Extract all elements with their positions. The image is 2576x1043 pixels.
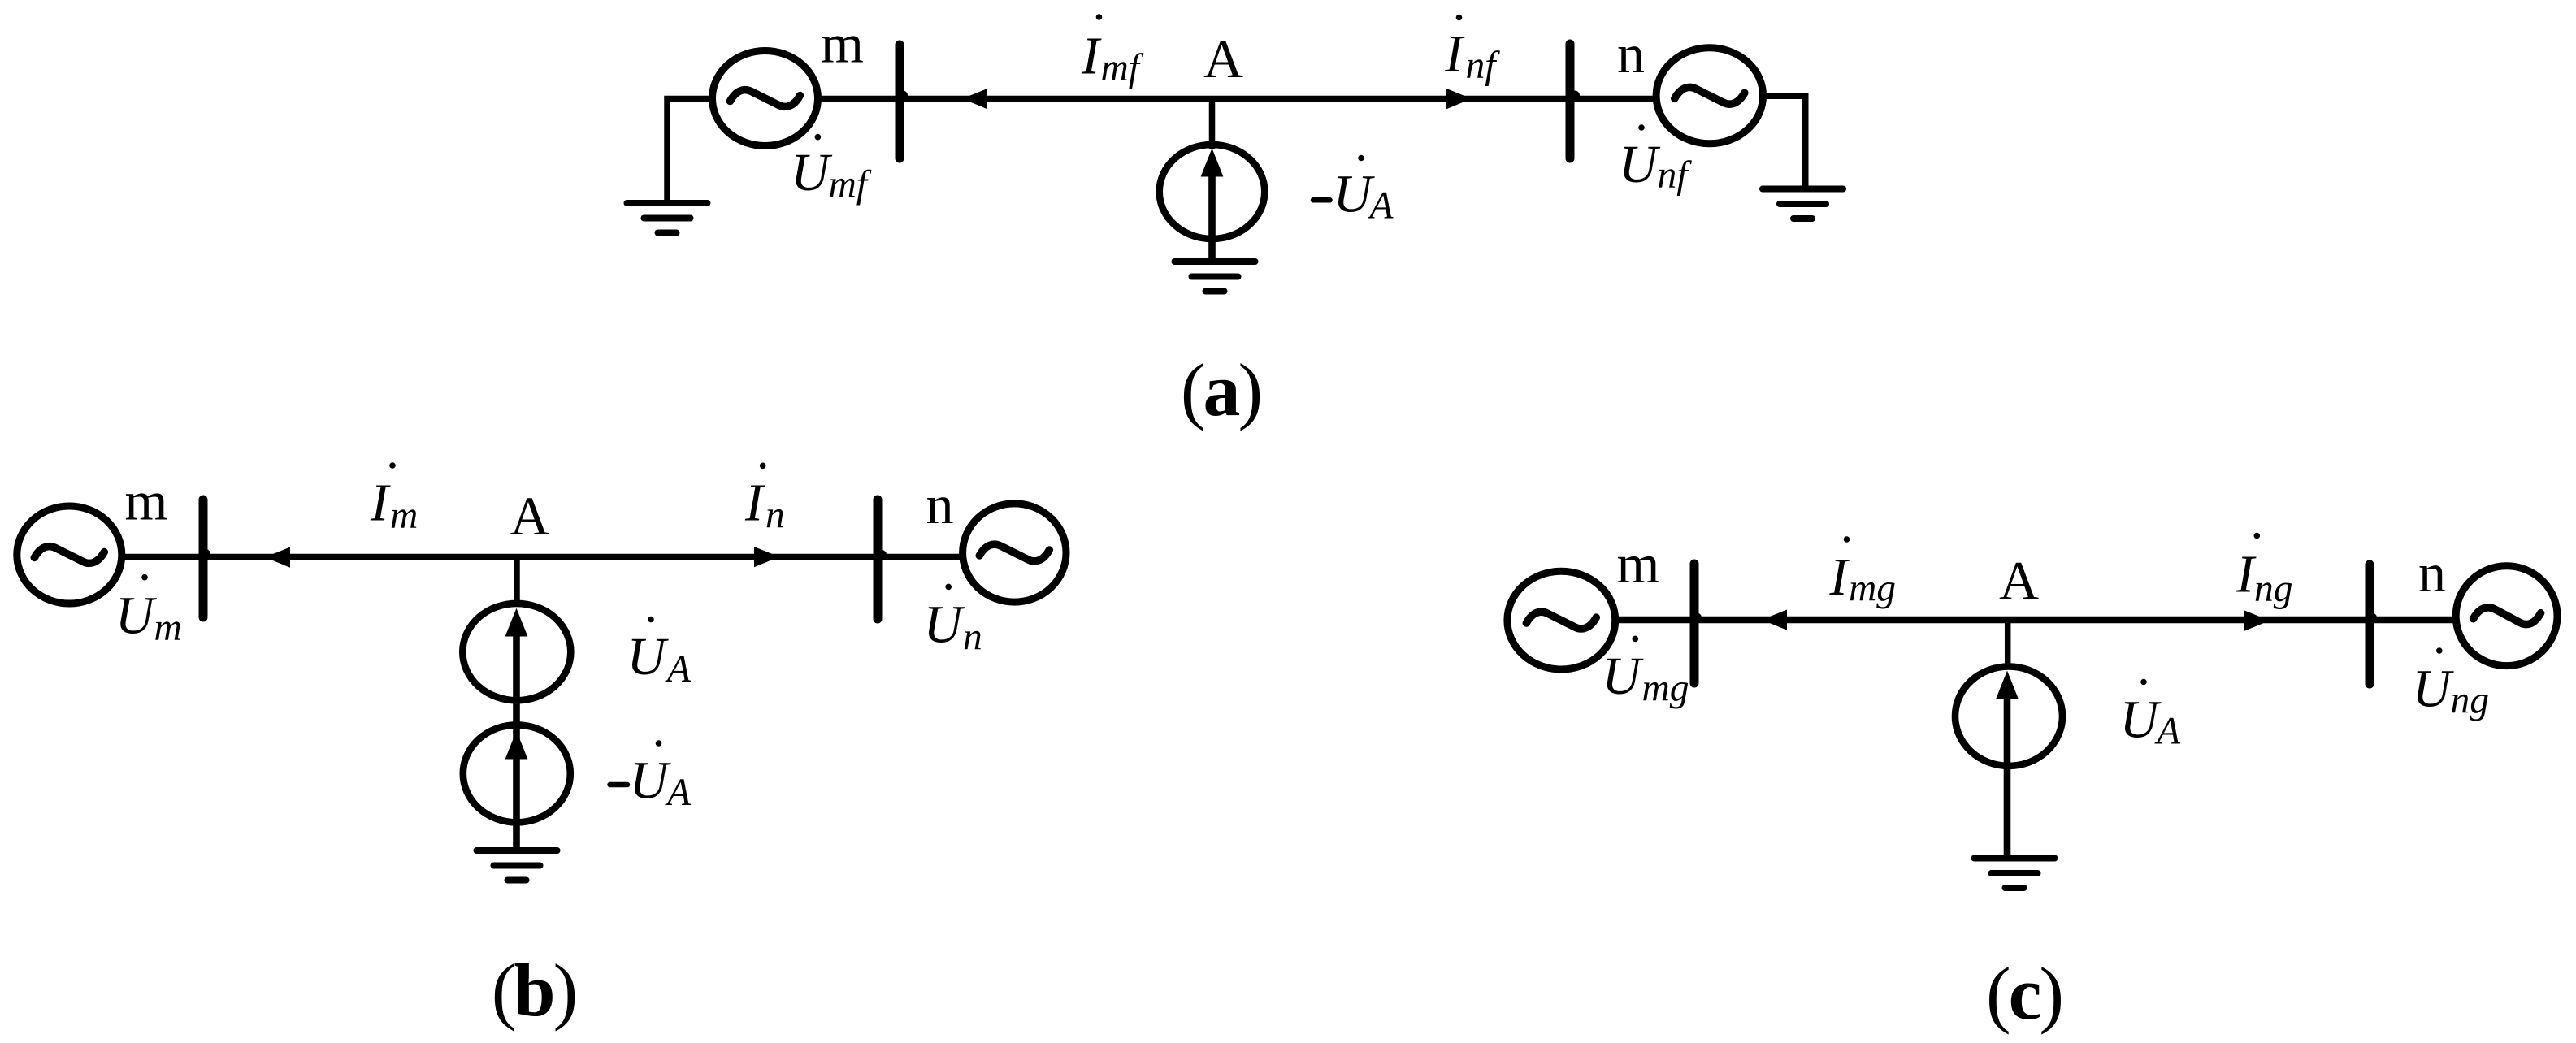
svg-text:A: A [1368,185,1394,227]
arrow of source UA (fig c) [1996,671,2019,699]
svg-text:A: A [2154,711,2181,753]
AC source Ung [2456,566,2557,666]
junction dot bus m (fig c) [1692,613,1702,623]
junction dot bus n (fig b) [877,550,887,560]
svg-text:m: m [821,13,864,75]
svg-text:A: A [1999,550,2039,612]
AC source Unf [1656,48,1763,144]
svg-text:(a): (a) [1181,348,1260,431]
label Img [1829,536,1897,609]
svg-text:(b): (b) [492,949,575,1032]
svg-text:m: m [125,470,168,532]
junction dot bus n (fig a) [1570,91,1580,101]
label In [744,463,785,537]
label Im [370,462,418,537]
svg-text:ng: ng [2254,568,2293,610]
junction dot bus m (fig b) [201,549,210,559]
junction dot bus m (fig a) [898,91,908,101]
svg-text:I: I [744,474,765,533]
svg-text:U: U [627,627,670,686]
svg-text:A: A [665,772,692,814]
svg-text:A: A [665,648,692,690]
svg-text:I: I [370,474,391,533]
label Ung [2413,647,2490,721]
label Unf [1619,124,1692,197]
AC source Um [17,506,122,604]
svg-text:n: n [765,495,785,537]
arrow Imf (left-pointing) [962,89,987,109]
label -UA (fig b) [610,740,692,814]
ground (below -UA, fig a) [1175,262,1255,292]
AC source Umf [713,51,818,146]
svg-text:nf: nf [1466,45,1501,87]
svg-text:mg: mg [1849,568,1896,610]
svg-text:U: U [630,751,672,811]
svg-text:U: U [1602,647,1644,706]
arrow Img (left-pointing) [1762,610,1787,630]
wire source UA to ground (fig c) [2004,697,2011,859]
arrow Ing (right-pointing) [2244,611,2270,631]
wire m-A-n (fig c) [1615,617,2457,624]
wire through sources to ground (fig b) [513,634,520,850]
arrow Im (left-pointing) [265,547,290,568]
label Ing [2236,533,2293,610]
svg-text:I: I [1081,27,1102,86]
bus bar m (fig a) [896,45,904,158]
ground (right, fig a) [1763,189,1843,219]
svg-text:n: n [2418,542,2446,604]
voltage source -UA (fig b) [463,725,570,822]
svg-text:m: m [1617,533,1660,595]
svg-text:nf: nf [1658,154,1693,197]
svg-text:m: m [390,495,418,537]
svg-text:A: A [1203,28,1243,89]
label Umf [791,134,872,206]
label Imf [1081,14,1144,89]
svg-text:A: A [510,485,550,547]
voltage source UA (fig c) [1955,667,2062,766]
svg-text:U: U [924,595,966,655]
bus bar m (fig b) [199,500,208,617]
label -UA (fig a) [1313,155,1394,227]
arrow Inf (right-pointing) [1446,89,1472,109]
svg-text:U: U [1619,135,1661,194]
bus bar m (fig c) [1690,564,1699,683]
svg-text:U: U [115,586,158,646]
label UA (fig c) [2120,679,2182,753]
svg-text:n: n [1617,23,1645,84]
wire m-A-n (fig a) [817,96,1657,102]
bus bar n (fig a) [1566,44,1575,158]
voltage source UA (fig b) [462,604,570,700]
wire from ground to source Umf [667,99,713,204]
svg-text:U: U [791,143,833,202]
label Umg [1602,636,1689,710]
svg-text:m: m [154,607,182,649]
svg-text:mg: mg [1642,668,1689,710]
label Um [115,574,182,649]
AC source Un [963,504,1066,602]
svg-text:(c): (c) [1986,952,2062,1035]
svg-text:I: I [1444,24,1465,84]
wire m-A-n (fig b) [121,554,963,560]
svg-text:n: n [926,474,954,535]
AC source Umg [1507,571,1615,669]
ground (left of source Umf) [627,203,708,233]
ground (fig c) [1975,859,2055,889]
svg-text:mf: mf [1101,47,1144,89]
svg-text:ng: ng [2451,680,2490,722]
wire source Unf to ground [1763,96,1806,189]
junction dot bus n (fig c) [2367,613,2377,623]
bus bar n (fig b) [874,500,883,619]
ground (fig b) [477,850,557,881]
svg-text:mf: mf [829,164,872,206]
arrow of source UA (fig b) [505,608,528,637]
svg-text:U: U [2413,660,2455,719]
svg-text:I: I [1829,547,1850,607]
label Un [924,584,982,659]
arrow of source -UA (fig a) [1201,149,1224,262]
arrow of source -UA (fig b) [505,731,528,760]
voltage source -UA (fig a) [1160,145,1265,239]
svg-text:U: U [2120,690,2162,750]
label UA (fig b) [627,617,692,690]
wire node A to source UA (fig c) [2005,620,2011,669]
svg-text:n: n [963,617,982,659]
label Inf [1444,15,1500,87]
wire node A to source UA (fig b) [514,557,520,608]
arrow In (right-pointing) [754,547,779,567]
bus bar n (fig c) [2366,565,2374,684]
wire node A to source -UA [1209,99,1216,150]
